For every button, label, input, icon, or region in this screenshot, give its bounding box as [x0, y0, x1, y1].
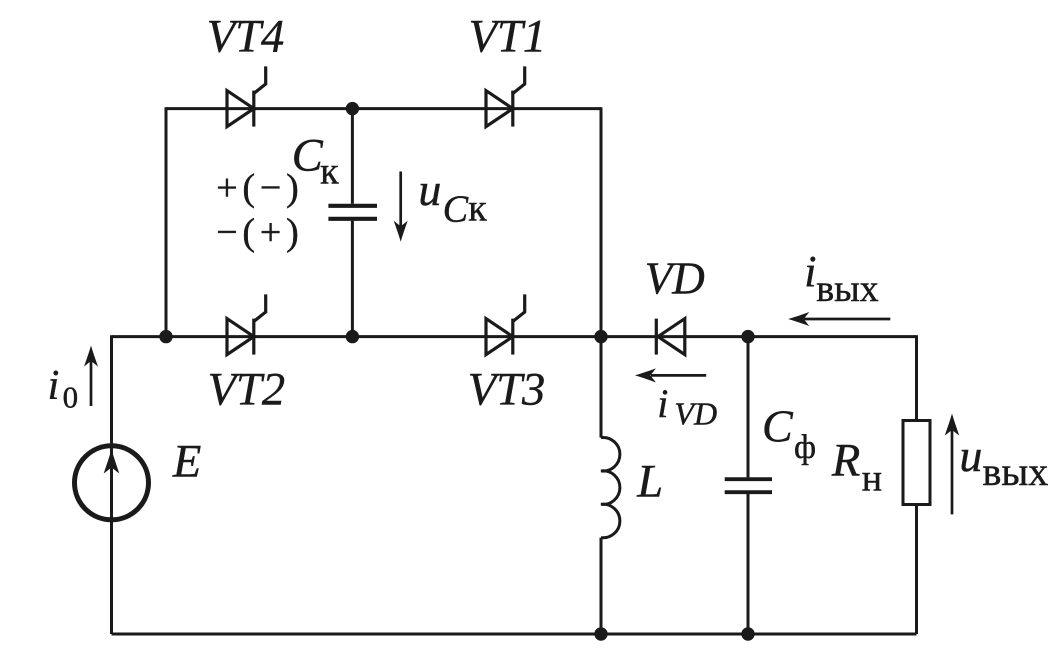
node at bridge output [594, 330, 607, 343]
svg-text:i: i [657, 381, 668, 426]
inductor L [601, 437, 620, 537]
svg-text:VT3: VT3 [468, 365, 546, 416]
wire Cf branch upper [747, 337, 750, 478]
wire L branch lower [600, 538, 603, 634]
label i_vyh [804, 247, 878, 310]
svg-text:i: i [48, 363, 60, 409]
label Cf [762, 401, 816, 466]
wire R branch lower [915, 506, 918, 634]
thyristor VT2 [227, 294, 266, 354]
node at Cf top [741, 330, 754, 343]
svg-text:−(+): −(+) [216, 212, 303, 254]
svg-text:L: L [636, 457, 663, 508]
source E internal arrow [104, 450, 120, 520]
wire bottom rail [112, 633, 917, 636]
arrow u_vyh [945, 414, 959, 515]
wire Cf branch lower [747, 494, 750, 634]
capacitor Ck [328, 206, 377, 219]
svg-text:u: u [959, 430, 982, 481]
resistor Rn body [903, 421, 930, 505]
svg-text:0: 0 [63, 380, 79, 415]
label i0 [48, 363, 79, 415]
svg-text:ф: ф [794, 429, 816, 466]
svg-text:вых: вых [983, 449, 1049, 494]
arrow u_Ck [394, 172, 408, 242]
svg-text:C: C [762, 401, 794, 452]
svg-text:вых: вых [816, 268, 878, 310]
svg-text:VT4: VT4 [207, 11, 285, 62]
diode VD [656, 319, 685, 355]
wire R branch upper [915, 335, 918, 419]
wire top rail [166, 107, 601, 110]
label i_VD [657, 381, 717, 432]
node at Cf bottom [741, 627, 754, 640]
wire right bridge vertical [600, 107, 603, 336]
svg-text:к: к [320, 151, 339, 193]
arrow i0 [84, 346, 98, 407]
svg-text:VD: VD [674, 396, 717, 432]
label u_vyh [959, 430, 1048, 494]
arrow i_VD [635, 368, 706, 382]
node at Ck bottom [346, 330, 359, 343]
svg-text:C: C [443, 189, 469, 231]
label Ck [292, 131, 339, 193]
wire middle rail [112, 335, 917, 338]
svg-text:VT1: VT1 [469, 11, 547, 62]
svg-text:+(−): +(−) [216, 167, 303, 209]
node at L bottom [594, 627, 607, 640]
svg-text:VD: VD [645, 254, 705, 304]
capacitor Cf [725, 479, 772, 492]
svg-text:i: i [804, 247, 816, 296]
wire Ck branch lower [351, 221, 354, 337]
svg-text:E: E [172, 436, 201, 487]
svg-text:u: u [418, 164, 441, 215]
thyristor VT3 [486, 294, 525, 354]
wire E branch [110, 335, 113, 634]
arrow i_vyh [788, 312, 890, 326]
wire Ck branch upper [351, 109, 354, 204]
source E circle [75, 446, 149, 520]
label Rn [831, 436, 882, 500]
svg-text:VT2: VT2 [208, 365, 286, 416]
node at left-top vertical and middle rail [159, 330, 172, 343]
svg-text:н: н [862, 457, 882, 499]
wire left-top vertical [165, 107, 168, 336]
thyristor VT1 [486, 66, 525, 126]
thyristor VT4 [227, 66, 266, 126]
node at Ck top [346, 102, 359, 115]
svg-text:R: R [831, 436, 860, 487]
svg-text:к: к [468, 187, 487, 229]
wire L branch upper [600, 337, 603, 438]
label u_Ck [418, 164, 487, 231]
